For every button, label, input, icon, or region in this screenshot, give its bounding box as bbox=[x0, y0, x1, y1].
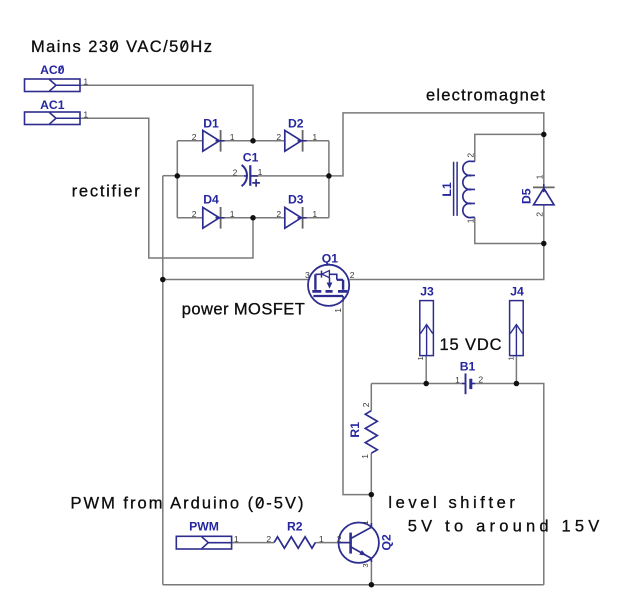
wire electromagnet to Q1 source pin2 bbox=[349, 244, 544, 280]
wire D1 anode bbox=[177, 140, 203, 142]
wire bridge left rail bbox=[176, 141, 178, 218]
power MOSFET Q1 bbox=[308, 265, 349, 306]
svg-text:D3: D3 bbox=[288, 192, 304, 206]
svg-text:2: 2 bbox=[535, 212, 545, 217]
junction AC1/D4/D3 bbox=[250, 215, 256, 221]
svg-text:1: 1 bbox=[535, 174, 545, 179]
junction C1 right / output bbox=[326, 173, 332, 179]
svg-text:D1: D1 bbox=[203, 116, 219, 130]
junction Q2 emitter / ground rail bbox=[369, 582, 375, 588]
capacitor C1 bbox=[242, 165, 260, 187]
svg-text:1: 1 bbox=[506, 356, 515, 360]
svg-text:D5: D5 bbox=[520, 188, 534, 204]
svg-text:2: 2 bbox=[350, 270, 355, 280]
wire D4 anode bbox=[177, 217, 203, 219]
wire D3 cathode to right rail bbox=[303, 217, 329, 219]
junction C1 left / left rail bbox=[175, 173, 181, 179]
svg-text:1: 1 bbox=[465, 218, 475, 223]
svg-text:1: 1 bbox=[319, 534, 324, 544]
svg-text:B1: B1 bbox=[460, 359, 476, 373]
svg-text:R2: R2 bbox=[287, 520, 303, 534]
wire D2 anode bbox=[253, 140, 285, 142]
svg-text:1: 1 bbox=[312, 132, 317, 142]
junction J3 / 15V rail bbox=[423, 381, 429, 387]
wire D3 anode bbox=[253, 217, 285, 219]
svg-text:1: 1 bbox=[83, 110, 88, 120]
inductor L1 bbox=[454, 161, 475, 217]
svg-text:15 VDC: 15 VDC bbox=[440, 336, 502, 354]
wire D5 anode lead bbox=[543, 205, 545, 243]
wire Q2 collector lead bbox=[370, 495, 372, 524]
wire J3 lead bbox=[425, 356, 427, 384]
svg-text:Q2: Q2 bbox=[380, 534, 394, 550]
svg-text:L1: L1 bbox=[440, 182, 454, 196]
wire C1 right bbox=[250, 175, 329, 177]
wire J4 lead bbox=[515, 356, 517, 384]
resistor R2 bbox=[274, 537, 315, 548]
connector J4 bbox=[510, 301, 524, 356]
svg-text:AC1: AC1 bbox=[40, 98, 65, 112]
diode D4 bbox=[203, 207, 225, 229]
slashed zero in (0-5V) bbox=[257, 498, 263, 508]
svg-text:J4: J4 bbox=[510, 284, 524, 298]
junction R1 / Q1 gate / Q2 collector bbox=[369, 492, 375, 498]
junction AC0/D1/D2 bbox=[250, 138, 256, 144]
svg-text:2: 2 bbox=[276, 209, 281, 219]
wire bridge right rail bbox=[328, 141, 330, 218]
connector AC1 bbox=[25, 112, 81, 125]
connector PWM bbox=[176, 536, 231, 549]
wire 15V rail right of battery to bottom right bbox=[471, 384, 544, 585]
diode D2 bbox=[285, 130, 307, 152]
wire C1 left bbox=[177, 175, 243, 177]
svg-text:power MOSFET: power MOSFET bbox=[182, 301, 305, 319]
svg-text:electromagnet: electromagnet bbox=[426, 87, 545, 105]
svg-text:1: 1 bbox=[455, 375, 460, 385]
svg-text:3: 3 bbox=[305, 270, 310, 280]
wire 15V rail left of battery bbox=[371, 383, 465, 385]
wire Q2 emitter lead bbox=[370, 561, 372, 585]
wire Q1 gate down to level shifter junction bbox=[343, 300, 371, 495]
slashed zero in 50Hz bbox=[181, 41, 187, 51]
junction left rail / Q1 drain bbox=[160, 277, 166, 283]
connector J3 bbox=[420, 301, 434, 356]
svg-text:5V to around 15V: 5V to around 15V bbox=[408, 518, 600, 536]
wire R1 top lead bbox=[370, 384, 372, 411]
transistor Q2 bbox=[339, 523, 379, 563]
wire left rail to Q1 pin3 bbox=[163, 279, 308, 281]
svg-text:2: 2 bbox=[276, 132, 281, 142]
junction J4 / 15V rail bbox=[514, 381, 520, 387]
svg-text:2: 2 bbox=[465, 153, 475, 158]
slashed zero in 230 bbox=[111, 41, 117, 51]
svg-text:1: 1 bbox=[312, 209, 317, 219]
wire D5 cathode lead bbox=[543, 134, 545, 187]
svg-text:2: 2 bbox=[192, 132, 197, 142]
svg-text:1: 1 bbox=[333, 308, 343, 313]
svg-text:2: 2 bbox=[233, 167, 238, 177]
wire R2 to Q2 base bbox=[315, 542, 350, 544]
svg-text:Mains 230 VAC/50Hz: Mains 230 VAC/50Hz bbox=[31, 38, 212, 56]
svg-text:D4: D4 bbox=[203, 192, 219, 206]
svg-text:2: 2 bbox=[266, 534, 271, 544]
svg-text:level shifter: level shifter bbox=[388, 494, 515, 512]
wire AC1 to bridge bottom junction bbox=[80, 118, 253, 258]
wire D1 cathode to junction bbox=[222, 140, 253, 142]
svg-text:2: 2 bbox=[337, 534, 342, 544]
svg-text:1: 1 bbox=[361, 520, 370, 524]
svg-text:1: 1 bbox=[360, 454, 370, 459]
wire R1 bottom lead bbox=[370, 453, 372, 494]
junction electromagnet bottom / D5 bbox=[541, 241, 547, 247]
slashed zero in AC0 label bbox=[59, 66, 64, 74]
wire L1 bottom to branch junction bbox=[475, 217, 544, 243]
svg-text:AC0: AC0 bbox=[40, 63, 65, 77]
resistor R1 bbox=[365, 411, 377, 454]
wire bridge output to electromagnet top bbox=[329, 113, 544, 176]
svg-text:2: 2 bbox=[478, 374, 483, 384]
svg-text:2: 2 bbox=[192, 209, 197, 219]
diode D5 bbox=[533, 184, 555, 205]
svg-text:PWM from Arduino (0-5V): PWM from Arduino (0-5V) bbox=[71, 494, 304, 512]
diode D3 bbox=[285, 207, 307, 229]
wire rectifier negative stub bbox=[163, 175, 178, 177]
diode D1 bbox=[203, 130, 225, 152]
svg-text:rectifier: rectifier bbox=[72, 183, 141, 201]
svg-text:1: 1 bbox=[234, 534, 239, 544]
wire D2 cathode to right rail bbox=[303, 140, 329, 142]
connector AC0 bbox=[25, 79, 81, 92]
wire electromagnet branch top to L1 bbox=[475, 134, 544, 161]
wire PWM to R2 bbox=[232, 542, 275, 544]
wire D4 cathode to junction bbox=[222, 217, 253, 219]
svg-text:Q1: Q1 bbox=[322, 252, 338, 266]
svg-text:3: 3 bbox=[361, 563, 370, 567]
junction electromagnet top / D5 bbox=[541, 132, 547, 138]
svg-text:R1: R1 bbox=[348, 422, 362, 438]
wire AC0 to bridge top junction bbox=[80, 85, 253, 141]
wire bottom ground rail bbox=[163, 584, 544, 586]
svg-text:1: 1 bbox=[258, 167, 263, 177]
svg-text:1: 1 bbox=[230, 209, 235, 219]
svg-text:PWM: PWM bbox=[189, 520, 219, 534]
wire left vertical rail bbox=[162, 176, 164, 585]
svg-text:J3: J3 bbox=[420, 284, 434, 298]
svg-text:D2: D2 bbox=[288, 116, 304, 130]
svg-text:1: 1 bbox=[416, 356, 425, 360]
battery B1 bbox=[462, 373, 475, 394]
svg-text:1: 1 bbox=[83, 77, 88, 87]
svg-text:1: 1 bbox=[230, 132, 235, 142]
svg-text:2: 2 bbox=[361, 402, 371, 407]
svg-text:C1: C1 bbox=[243, 151, 259, 165]
